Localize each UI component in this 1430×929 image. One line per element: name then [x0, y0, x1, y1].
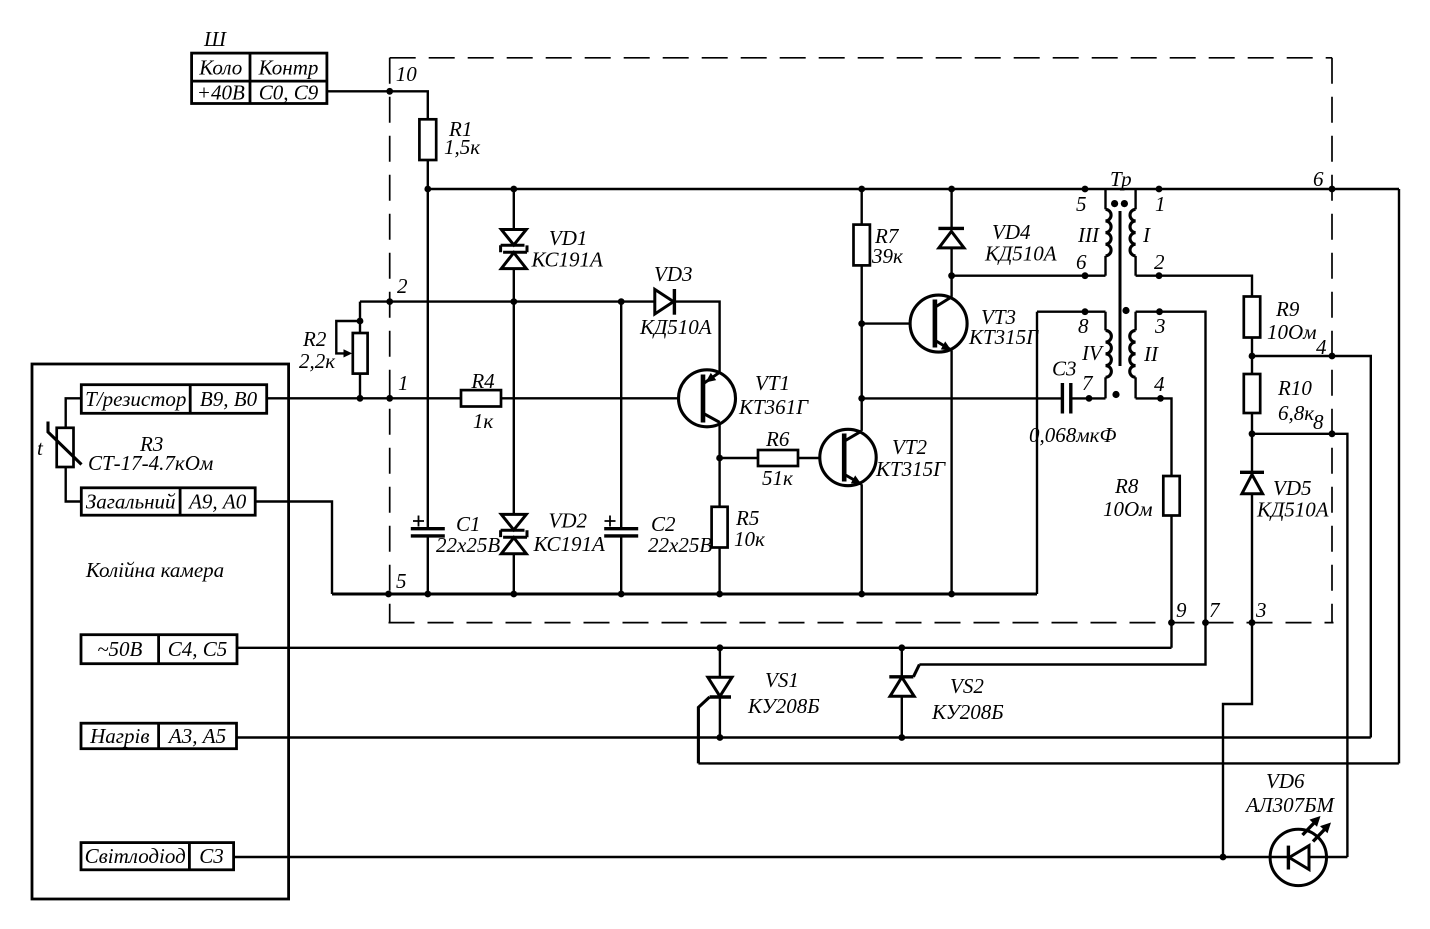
svg-text:КС191А: КС191А: [531, 248, 603, 272]
svg-text:3: 3: [1255, 598, 1267, 622]
transformer core: [1119, 211, 1122, 366]
svg-text:II: II: [1143, 342, 1159, 366]
node rail-C1: [424, 591, 431, 598]
svg-text:VD6: VD6: [1266, 769, 1305, 793]
wire Nagriv row: [237, 736, 1371, 738]
svg-text:R6: R6: [765, 427, 790, 451]
svg-text:2: 2: [1154, 250, 1165, 274]
wire pin3 row to node7 column: [919, 312, 1205, 665]
node C2-row2: [618, 298, 625, 305]
svg-text:22х25В: 22х25В: [436, 533, 500, 557]
svg-text:С4, С5: С4, С5: [168, 637, 228, 661]
svg-text:С0, С9: С0, С9: [259, 81, 319, 105]
transformer Tp label: [1110, 167, 1132, 191]
svg-text:8: 8: [1313, 410, 1324, 434]
bottom common rail (node 5 row): [332, 592, 1037, 595]
svg-text:1к: 1к: [473, 409, 494, 433]
LED VD6 (AL307BM): [1244, 769, 1347, 886]
svg-text:6: 6: [1313, 167, 1324, 191]
winding III (pins 5-6): [1076, 189, 1111, 276]
winding I (pins 1-2): [1130, 189, 1165, 276]
svg-text:КТ315Г: КТ315Г: [968, 325, 1039, 349]
svg-text:22х25В: 22х25В: [648, 533, 712, 557]
connector table Sh: [192, 27, 327, 105]
node 10: [386, 62, 417, 95]
wire +40V from table to R1: [327, 91, 428, 119]
svg-text:Загальний: Загальний: [86, 490, 176, 514]
resistor R10: [1244, 374, 1314, 472]
node VT1-R6: [716, 455, 723, 462]
wire VT2 collector up / emitter down: [861, 398, 863, 594]
node 6 on border: [1313, 167, 1335, 192]
svg-text:КТ315Г: КТ315Г: [875, 457, 946, 481]
transistor VT2 (KT315G, NPN): [820, 429, 946, 485]
wire node1 row (B9,B0 to VT1 base): [267, 397, 679, 399]
svg-text:51к: 51к: [762, 466, 793, 490]
node 5: [385, 569, 406, 597]
wire pin8 row: [1037, 311, 1106, 313]
svg-text:6: 6: [1076, 250, 1087, 274]
svg-text:VS2: VS2: [950, 674, 984, 698]
svg-text:R8: R8: [1114, 474, 1139, 498]
svg-text:Т/резистор: Т/резистор: [85, 387, 186, 411]
svg-text:С3: С3: [1052, 357, 1077, 381]
svg-text:С3: С3: [199, 844, 224, 868]
svg-text:R9: R9: [1275, 297, 1300, 321]
winding II (pins 3-4): [1130, 312, 1166, 399]
node 4 on border: [1316, 335, 1335, 359]
node rail-VD2: [510, 591, 517, 598]
resistor R1: [419, 117, 480, 189]
svg-text:VT1: VT1: [755, 371, 790, 395]
resistor R5: [712, 506, 765, 551]
diode VD3 (KD510A): [639, 262, 712, 339]
node rail-C2: [618, 591, 625, 598]
svg-text:КТ361Г: КТ361Г: [738, 395, 809, 419]
diode VD5 (KD510A): [1223, 472, 1329, 857]
node pin8: [1082, 308, 1089, 315]
resistor R9: [1244, 297, 1317, 375]
phase dot winding III: [1111, 200, 1118, 207]
svg-text:Тр: Тр: [1110, 167, 1132, 191]
node pin7: [1086, 395, 1093, 402]
svg-text:7: 7: [1209, 598, 1221, 622]
svg-text:~50В: ~50В: [97, 637, 142, 661]
svg-text:КД510А: КД510А: [639, 315, 712, 339]
svg-text:VD4: VD4: [992, 220, 1031, 244]
svg-text:8: 8: [1078, 314, 1089, 338]
svg-text:3: 3: [1154, 314, 1166, 338]
svg-text:VT2: VT2: [892, 435, 928, 459]
svg-text:7: 7: [1082, 371, 1094, 395]
svg-text:+40В: +40В: [197, 81, 245, 105]
svg-text:39к: 39к: [871, 244, 903, 268]
svg-text:2,2к: 2,2к: [299, 349, 335, 373]
svg-text:III: III: [1077, 223, 1100, 247]
svg-text:КД510А: КД510А: [1256, 498, 1329, 522]
node VS2 bottom: [898, 734, 905, 741]
resistor R4: [461, 369, 501, 433]
svg-text:VD1: VD1: [549, 226, 588, 250]
svg-text:2: 2: [397, 274, 408, 298]
svg-text:КС191А: КС191А: [533, 532, 605, 556]
svg-text:6,8к: 6,8к: [1278, 401, 1314, 425]
node 9 on border: [1168, 598, 1187, 626]
node rail-R5: [716, 591, 723, 598]
track chamber box (Koliyna kamera): [32, 364, 289, 899]
svg-text:IV: IV: [1081, 341, 1104, 365]
phase dot winding I: [1121, 200, 1128, 207]
wire ~50V row: [237, 647, 1172, 649]
svg-text:R10: R10: [1277, 376, 1312, 400]
wire node4 row: [1252, 356, 1371, 738]
svg-text:4: 4: [1154, 372, 1165, 396]
winding IV (pins 8-7): [1078, 312, 1111, 399]
node rail-VD4: [948, 186, 955, 193]
wire Svitlodiod row: [234, 856, 1271, 858]
node rail-VT3: [948, 591, 955, 598]
svg-text:10: 10: [396, 62, 418, 86]
wire A9,A0 down: [255, 502, 332, 595]
svg-text:5: 5: [396, 569, 407, 593]
svg-text:В9, В0: В9, В0: [200, 387, 258, 411]
svg-text:Ш: Ш: [203, 27, 227, 51]
terminal Nagriv A3,A5: [81, 723, 237, 749]
resistor R8: [1103, 474, 1180, 648]
svg-text:Нагрів: Нагрів: [89, 724, 149, 748]
top supply rail: [428, 188, 1399, 190]
wire VD4/VT3 column: [950, 189, 952, 594]
svg-text:СТ-17-4.7кОм: СТ-17-4.7кОм: [88, 451, 213, 475]
node pin4: [1157, 395, 1164, 402]
svg-text:А3, А5: А3, А5: [167, 724, 226, 748]
wire VD1 to VD2 column: [513, 302, 515, 594]
capacitor C2: [604, 512, 712, 557]
capacitor C1: [411, 512, 501, 557]
terminal Zagalnyi A9,A0: [81, 488, 255, 515]
transistor VT3 (KT315G, NPN): [862, 295, 1039, 352]
svg-text:10к: 10к: [734, 527, 765, 551]
wire node8 row: [1252, 434, 1347, 857]
svg-text:9: 9: [1176, 598, 1187, 622]
svg-text:0,068мкФ: 0,068мкФ: [1029, 423, 1116, 447]
svg-text:КУ208Б: КУ208Б: [747, 694, 820, 718]
svg-text:10Ом: 10Ом: [1103, 497, 1153, 521]
wire VT1 collector to R5 and bottom rail: [718, 422, 720, 594]
node rail-pin1: [1156, 186, 1163, 193]
svg-text:10Ом: 10Ом: [1267, 320, 1317, 344]
svg-text:VS1: VS1: [765, 668, 799, 692]
svg-text:КД510А: КД510А: [984, 242, 1057, 266]
svg-text:VD3: VD3: [654, 262, 693, 286]
thermistor R3: [37, 398, 213, 501]
phase dot winding IV: [1112, 391, 1119, 398]
potentiometer R2: [299, 302, 368, 402]
thyristor VS1 (KU208B): [698, 648, 819, 764]
node 2: [386, 274, 408, 305]
terminal ~50V C4,C5: [81, 635, 237, 664]
zener VD2 (KS191A): [501, 509, 605, 557]
thyristor VS2 (KU208B): [889, 648, 1003, 738]
node rail-pin5: [1082, 186, 1089, 193]
wire pin6 row (VD4 to winding III): [952, 275, 1106, 277]
svg-text:А9, А0: А9, А0: [187, 490, 247, 514]
svg-text:1,5к: 1,5к: [444, 135, 480, 159]
svg-text:1: 1: [398, 371, 409, 395]
svg-text:VD5: VD5: [1273, 476, 1312, 500]
wire pin2 to R9: [1136, 276, 1252, 297]
svg-text:VD2: VD2: [549, 509, 588, 533]
capacitor C3: [1029, 357, 1116, 448]
node LED-3: [1220, 854, 1227, 861]
phase dot winding II: [1122, 307, 1129, 314]
svg-text:R2: R2: [302, 327, 327, 351]
resistor R6: [720, 427, 820, 490]
wire C2 column: [620, 302, 622, 594]
diode VD4 (KD510A): [938, 220, 1056, 266]
svg-text:5: 5: [1076, 192, 1087, 216]
node 3 on border: [1249, 598, 1267, 626]
svg-text:Світлодіод: Світлодіод: [85, 844, 186, 868]
dashed block border: [389, 58, 1334, 623]
node rail-R1: [424, 186, 431, 193]
wire VS1 gate row: [698, 762, 1399, 764]
svg-text:R4: R4: [470, 369, 495, 393]
svg-text:4: 4: [1316, 335, 1327, 359]
node R7-VT3base: [858, 320, 865, 327]
node pin2: [1156, 272, 1163, 279]
node VD1-row2: [510, 298, 517, 305]
terminal Svitlodiod C3: [81, 843, 234, 870]
svg-text:1: 1: [1155, 192, 1166, 216]
node pin3: [1156, 308, 1163, 315]
svg-text:Контр: Контр: [258, 56, 319, 80]
resistor R7: [854, 189, 904, 398]
node VS1 anode: [717, 644, 724, 651]
node 8 on border: [1313, 410, 1335, 437]
node 7 on border: [1202, 598, 1221, 626]
node rail-VD1: [510, 186, 517, 193]
transistor VT1 (KT361G, PNP): [679, 370, 810, 427]
wire right edge: rail down to VS1 gate line: [1398, 189, 1400, 763]
svg-text:Коло: Коло: [198, 56, 242, 80]
node rail-VT2: [858, 591, 865, 598]
zener VD1 (KS191A): [501, 189, 603, 302]
wire C3 row: [862, 397, 1106, 399]
node R7-C3wire: [858, 395, 865, 402]
svg-text:Колійна камера: Колійна камера: [85, 558, 224, 582]
node VD4-pin6: [948, 272, 955, 279]
wire pin4 to R8: [1136, 398, 1172, 476]
wire node2 row: [360, 302, 720, 372]
wire pin8 column down to bottom rail: [1036, 312, 1038, 594]
node rail-R7: [858, 186, 865, 193]
wire C1 column: [427, 189, 429, 594]
svg-text:I: I: [1142, 223, 1151, 247]
node 1: [386, 371, 408, 402]
node pin6: [1082, 272, 1089, 279]
svg-text:КУ208Б: КУ208Б: [931, 700, 1004, 724]
svg-text:АЛ307БМ: АЛ307БМ: [1244, 793, 1336, 817]
terminal T/rezystor B9,B0: [81, 385, 266, 414]
node 8 junction R10-VD5: [1249, 430, 1256, 437]
node VS1 cathode: [717, 734, 724, 741]
node 4 junction R9-R10: [1249, 353, 1256, 360]
node VS2 top: [898, 644, 905, 651]
